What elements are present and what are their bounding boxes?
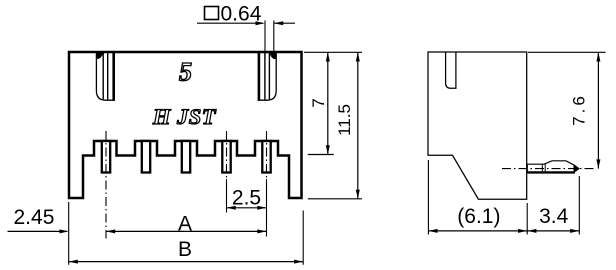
- dim line 11.5: [357, 52, 359, 199]
- svg-text:(6.1): (6.1): [457, 205, 500, 228]
- svg-text:A: A: [178, 213, 192, 236]
- svg-text:2.5: 2.5: [232, 187, 261, 210]
- svg-text:7.6: 7.6: [570, 93, 589, 126]
- extension line top right of front view: [304, 51, 362, 53]
- extension line 3.4 right: [578, 176, 580, 235]
- side view top notch: [446, 52, 456, 88]
- svg-text:H JST: H JST: [152, 104, 217, 129]
- side view body outline: [428, 52, 527, 199]
- extension lines 0.64: [264, 21, 266, 60]
- svg-text:5: 5: [179, 58, 192, 87]
- top slot right (pin5 contact cavity): [259, 53, 277, 100]
- pin P2 bottom: [142, 141, 150, 173]
- dim line 3.4: [527, 230, 579, 232]
- pin P3 bottom: [182, 141, 190, 173]
- extension line at leg bottom (11.5): [308, 198, 362, 200]
- pin P1 bottom: [102, 141, 110, 173]
- pin P5 bottom: [262, 141, 270, 173]
- extension line top right side view: [528, 51, 606, 53]
- side view pin: [527, 161, 579, 172]
- dim line 0.64 right leader: [274, 22, 295, 24]
- pin P4 bottom: [222, 141, 230, 173]
- extension line 6.1 left: [427, 160, 429, 235]
- extension line at step (7): [308, 154, 334, 156]
- dim line 7.6: [597, 52, 599, 168]
- svg-text:7: 7: [309, 98, 328, 107]
- centerline pin4: [226, 131, 228, 179]
- svg-text:2.45: 2.45: [14, 206, 55, 229]
- dim line 0.64 left leader: [197, 22, 263, 24]
- housing outline front view: [69, 52, 302, 198]
- dim line 2.45: [8, 230, 68, 232]
- svg-text:11.5: 11.5: [335, 104, 354, 136]
- centerline pin5: [266, 131, 268, 179]
- dim square 0.64: square symbol: [205, 7, 219, 20]
- extension line B right: [302, 211, 304, 265]
- extension line 6.1/3.4 middle: [526, 203, 528, 235]
- dim line 2.5: [227, 207, 267, 209]
- svg-text:B: B: [178, 238, 192, 261]
- extension line B left: [68, 202, 70, 265]
- top slot left (pin1 contact cavity): [96, 53, 114, 100]
- dim line 7: [327, 52, 329, 154]
- dim line B: [69, 261, 304, 263]
- dim line 6.1: [428, 230, 527, 232]
- dim line A: [106, 230, 267, 232]
- side pin centerline: [502, 168, 594, 170]
- centerline pin1: [105, 131, 107, 239]
- svg-text:3.4: 3.4: [539, 205, 569, 228]
